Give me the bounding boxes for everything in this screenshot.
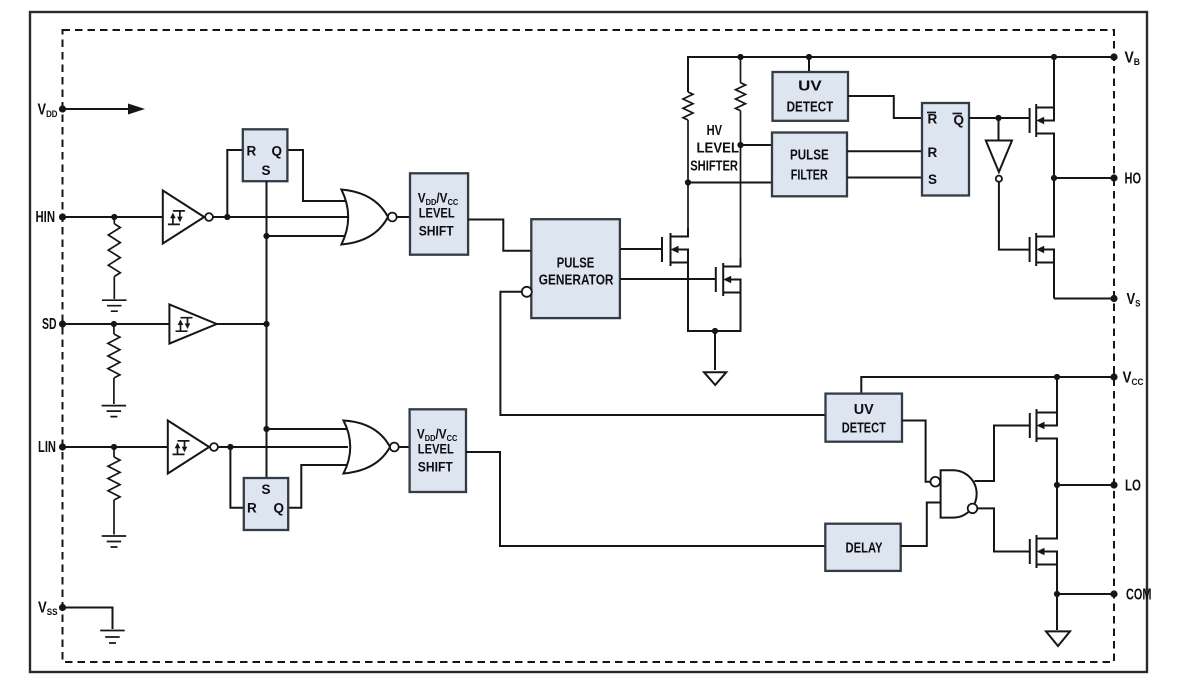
wire COM out	[1057, 593, 1114, 595]
wire LEVEL SHIFT 2 out to DELAY	[466, 452, 825, 546]
wire G1 out to LEVEL SHIFT 1	[396, 216, 410, 218]
node SD-net to NOR G1 input	[263, 233, 269, 239]
node VB/R5 junction	[737, 54, 743, 60]
svg-text:HV: HV	[707, 123, 723, 139]
svg-text:Q: Q	[272, 144, 283, 159]
pin VS	[1110, 295, 1117, 302]
pin VDD	[59, 105, 66, 112]
wire to NOR G2 top input	[267, 428, 349, 430]
wire HIN line	[63, 216, 163, 218]
node SD-resistor junction	[111, 321, 117, 327]
wire SD line	[63, 323, 170, 325]
block DELAY	[825, 524, 900, 571]
svg-text:Q: Q	[274, 501, 285, 516]
wire R4 node to PULSE FILTER lower input	[688, 182, 772, 184]
wire U1 out to NOR G1	[213, 216, 348, 218]
node Qbar/inverter junction	[995, 115, 1001, 121]
wire VB to UV DETECT 1	[808, 57, 810, 72]
node VCC/Q5 drain	[1054, 374, 1060, 380]
ground (triangle, COM)	[1046, 631, 1070, 646]
svg-text:R: R	[928, 112, 938, 127]
svg-text:S: S	[262, 163, 271, 178]
svg-text:LIN: LIN	[38, 439, 56, 456]
svg-text:Q: Q	[954, 113, 965, 128]
wire U2 out	[217, 323, 267, 325]
svg-text:HIN: HIN	[36, 209, 56, 226]
gate G3 (low-side AND w/ inverted input+output)	[941, 470, 977, 517]
svg-text:GENERATOR: GENERATOR	[539, 273, 614, 289]
node HIN-resistor junction	[111, 214, 117, 220]
transistor Q6 (low-side NMOS)	[1030, 485, 1057, 594]
svg-text:COM: COM	[1126, 587, 1152, 604]
svg-text:SD: SD	[42, 316, 57, 333]
schmitt inverter U3 (LIN)	[168, 421, 209, 474]
pin VCC	[1110, 373, 1117, 380]
wire VCC rail	[861, 377, 1114, 394]
node LIN-resistor junction	[111, 444, 117, 450]
resistor R2 (SD pulldown)	[108, 324, 120, 404]
wire HO out	[1054, 177, 1114, 179]
svg-text:S: S	[262, 482, 271, 497]
svg-text:LEVEL: LEVEL	[697, 140, 740, 156]
block PULSE FILTER	[772, 133, 847, 197]
flip-flop FF1 (R Q / S)	[243, 129, 288, 181]
inverter U4 (high-side driver, pointing down)	[986, 141, 1012, 173]
wire FF1 R to HIN node	[227, 150, 243, 217]
wire VB rail	[688, 57, 1114, 92]
resistor R1 (HIN pulldown)	[108, 217, 120, 299]
svg-text:R: R	[928, 145, 938, 160]
svg-text:LO: LO	[1125, 478, 1141, 495]
wire LO out	[1057, 484, 1114, 486]
wire DELAY out to gate G3 lower input	[901, 503, 941, 547]
pin SD	[59, 320, 66, 327]
VDD arrow	[63, 108, 131, 110]
pin VB	[1110, 53, 1117, 60]
block VDD/VCC LEVEL SHIFT (low side)	[410, 409, 466, 492]
node LIN/FF2-R junction	[227, 444, 233, 450]
wire Q4 source to VS	[1054, 298, 1114, 300]
wire FF3 Qbar to Q3 gate	[969, 117, 1030, 119]
wire G2 out to LEVEL SHIFT 2	[398, 446, 410, 448]
svg-text:R: R	[247, 501, 257, 516]
ground (VSS)	[100, 631, 125, 644]
svg-text:SHIFT: SHIFT	[418, 460, 454, 475]
wire LEVEL SHIFT 1 out to PULSE GENERATOR	[468, 220, 531, 251]
svg-text:UV: UV	[854, 402, 874, 418]
svg-text:R: R	[247, 144, 257, 159]
transistor Q2 (level-shift NMOS, LIN channel)	[716, 258, 741, 305]
node R4 bottom to PULSE FILTER	[685, 179, 691, 185]
pin LO	[1110, 481, 1117, 488]
svg-text:SHIFTER: SHIFTER	[690, 159, 738, 175]
wire FF2 Q to NOR G2 bottom input	[288, 465, 348, 508]
svg-text:LEVEL: LEVEL	[419, 206, 455, 221]
svg-text:UV: UV	[798, 79, 822, 95]
wire SD net vertical (FF1 S to FF2 S)	[266, 181, 268, 478]
wire U3 out to NOR G2	[218, 446, 348, 448]
resistor R4 (HV level shifter left)	[683, 92, 693, 228]
node COM junction	[1054, 591, 1060, 597]
schmitt inverter U1 (HIN)	[163, 191, 204, 244]
wire to NOR G1 bottom input	[267, 235, 347, 237]
pin VSS	[59, 604, 66, 611]
node HIN/FF1-R junction	[224, 214, 230, 220]
resistor R3 (LIN pulldown)	[108, 447, 120, 535]
wire G3 inverted out to Q6 gate	[977, 508, 1030, 551]
wire PULSE GEN out bottom to Q2 gate	[620, 278, 716, 280]
schmitt buffer U2 (SD)	[169, 304, 216, 343]
wire UV2 out to gate G3 upper input	[902, 421, 930, 482]
transistor Q4 (high-side NMOS)	[1030, 178, 1054, 299]
wire PULSE GEN out top to Q1 gate	[620, 248, 662, 250]
svg-text:PULSE: PULSE	[557, 255, 595, 271]
node VB/Q3 drain	[1051, 54, 1057, 60]
block UV DETECT (low side)	[826, 394, 903, 442]
wire U4 out to Q4 gate	[999, 182, 1030, 250]
wire FF1 Q to NOR G1 top input	[287, 150, 346, 201]
svg-text:DETECT: DETECT	[842, 421, 886, 437]
wire node to inverter U4	[998, 118, 1000, 141]
node SD-net to NOR G2 input	[263, 426, 269, 432]
ground (HIN)	[102, 300, 127, 311]
wire Q1/Q2 sources to common rail	[688, 275, 741, 331]
pin COM	[1110, 590, 1117, 597]
block PULSE GENERATOR	[531, 219, 620, 318]
NOR gate G2	[344, 421, 391, 474]
svg-text:LEVEL: LEVEL	[418, 442, 454, 457]
svg-text:FILTER: FILTER	[791, 167, 828, 183]
transistor Q1 (level-shift NMOS, HIN channel)	[662, 228, 688, 275]
block VDD/VCC LEVEL SHIFT (high side)	[410, 173, 468, 254]
node LO junction	[1054, 482, 1060, 488]
wire G3 top out to Q5 gate	[975, 426, 1030, 482]
NOR gate G1	[341, 190, 388, 245]
ground (triangle, level shifter)	[704, 372, 726, 385]
svg-text:HO: HO	[1125, 171, 1142, 188]
resistor R5 (HV level shifter right)	[736, 57, 746, 258]
wire PULSE GENERATOR inverted input from UV line	[500, 292, 825, 415]
wire LIN line	[63, 446, 168, 448]
svg-text:DELAY: DELAY	[846, 541, 883, 557]
wire PULSE FILTER S out	[847, 177, 922, 179]
ground (SD)	[102, 406, 127, 417]
transistor Q3 (high-side PMOS)	[1030, 57, 1054, 178]
svg-text:DETECT: DETECT	[787, 99, 834, 115]
wire COM to ground	[1056, 594, 1058, 630]
wire PULSE FILTER R out	[847, 150, 922, 152]
pin LIN	[59, 443, 66, 450]
node SD-net on SD line	[263, 321, 269, 327]
wire VSS to ground	[63, 608, 113, 630]
block UV DETECT (high side)	[773, 72, 849, 121]
ground (LIN)	[102, 536, 127, 547]
node VB/UV1 junction	[806, 54, 812, 60]
svg-text:PULSE: PULSE	[790, 147, 829, 163]
pin HIN	[59, 213, 66, 220]
node source rail	[712, 328, 718, 334]
wire rail to ground	[714, 331, 716, 370]
svg-text:SHIFT: SHIFT	[419, 224, 455, 239]
flip-flop FF3 (Rbar R S / Qbar)	[922, 103, 969, 196]
svg-text:S: S	[928, 172, 937, 187]
node HO junction	[1051, 175, 1057, 181]
wire UV1 out to FF3 Rbar	[848, 96, 922, 118]
pin HO	[1110, 174, 1117, 181]
transistor Q5 (low-side PMOS)	[1030, 377, 1057, 485]
node R5 bottom to PULSE FILTER	[737, 142, 743, 148]
flip-flop FF2 (S / R Q)	[244, 478, 288, 530]
wire R5 node to PULSE FILTER upper input	[741, 144, 773, 146]
wire FF2 R to LIN node	[230, 447, 243, 508]
